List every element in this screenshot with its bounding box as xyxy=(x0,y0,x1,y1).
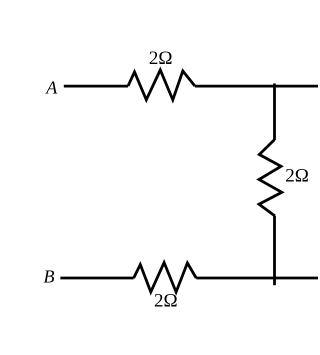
wire from resistor R2 to right edge through bottom junction xyxy=(196,277,318,280)
resistor R1 (top, 2 ohm) xyxy=(128,70,195,100)
resistor R2 (bottom, 2 ohm) xyxy=(134,263,197,293)
svg-text:A: A xyxy=(45,77,58,97)
svg-text:B: B xyxy=(44,267,55,287)
svg-text:2Ω: 2Ω xyxy=(149,48,173,69)
top junction: vertical stub from top wire down to resistor R3 xyxy=(273,84,276,141)
wire from resistor R1 to right edge through top junction xyxy=(195,85,318,88)
wire from node A to resistor R1 xyxy=(64,85,128,88)
wire from resistor R3 down to bottom wire junction (with small overhang) xyxy=(273,216,276,285)
svg-text:2Ω: 2Ω xyxy=(285,166,309,187)
resistor R3 (vertical, 2 ohm) xyxy=(259,140,282,216)
svg-text:2Ω: 2Ω xyxy=(154,291,178,312)
wire from node B to resistor R2 xyxy=(60,277,133,280)
